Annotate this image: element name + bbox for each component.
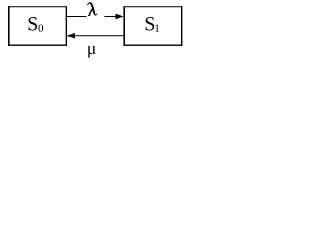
wire lambda arrow left segment: [67, 16, 87, 18]
wire mu arrow: [67, 35, 124, 37]
state box S1: [124, 6, 183, 46]
label S0: [29, 17, 38, 30]
label mu: [88, 46, 95, 58]
label S1: [146, 17, 155, 30]
state box S0: [8, 6, 67, 46]
mu arrowhead: [67, 33, 75, 39]
label lambda: [87, 3, 97, 16]
lambda arrowhead: [116, 14, 124, 20]
wire lambda arrow right segment: [105, 16, 117, 18]
